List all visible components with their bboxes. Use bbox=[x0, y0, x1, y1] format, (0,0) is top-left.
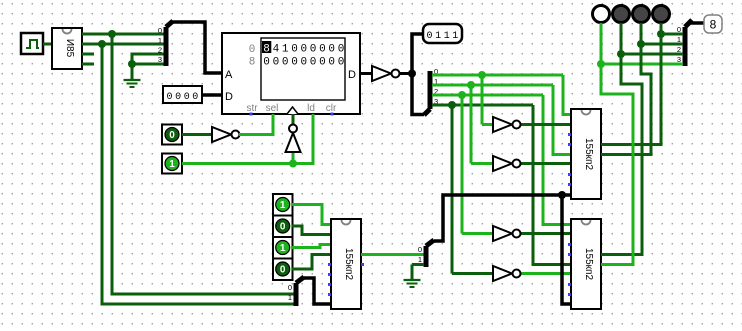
junction bus node bbox=[408, 70, 416, 78]
wire SP2 pin2 row (bit2=1) bbox=[432, 94, 543, 97]
U5 unconnected pin y=264.5 bbox=[328, 263, 331, 266]
svg-text:A: A bbox=[225, 69, 233, 81]
inverter G7 bbox=[452, 266, 571, 281]
svg-text:0: 0 bbox=[328, 57, 335, 69]
U4 unconnected pin y=294.5 bbox=[568, 293, 571, 296]
svg-text:1: 1 bbox=[418, 255, 422, 264]
wire clock out to U1 clk in bbox=[43, 43, 52, 46]
U3 unconnected pin y=144.5 bbox=[568, 143, 571, 146]
RAM clock pin triangle bbox=[287, 107, 298, 114]
svg-text:0: 0 bbox=[319, 44, 326, 56]
svg-text:0: 0 bbox=[300, 44, 307, 56]
svg-text:D: D bbox=[225, 91, 233, 103]
svg-text:8: 8 bbox=[710, 18, 717, 32]
clock generator CLK1 bbox=[21, 33, 43, 54]
svg-text:0: 0 bbox=[418, 245, 422, 254]
bus select to U3/U4 bbox=[434, 195, 571, 241]
wire row0 to SP5 pin0 bbox=[661, 33, 683, 36]
splitter SP4 (counter bits to U5 select) bbox=[288, 277, 304, 306]
wire U1 Q3 stub bbox=[82, 63, 94, 66]
svg-text:1: 1 bbox=[444, 31, 450, 42]
svg-text:sel: sel bbox=[266, 103, 279, 114]
inverter G5 bbox=[471, 156, 571, 171]
junction bit1 branch bbox=[467, 81, 475, 89]
svg-text:0: 0 bbox=[288, 283, 292, 292]
inverter G1 (sel) bbox=[182, 127, 240, 142]
wire bit3 net down to U4 out bbox=[601, 64, 633, 265]
svg-text:155кп2: 155кп2 bbox=[343, 248, 354, 280]
wire SP2 pin3 row (bit3=0) bbox=[432, 104, 533, 107]
junction row2/LED2 bbox=[617, 50, 625, 58]
RAM memory contents display bbox=[249, 41, 345, 69]
svg-text:0: 0 bbox=[426, 31, 432, 42]
svg-text:1: 1 bbox=[158, 36, 162, 45]
svg-text:0: 0 bbox=[310, 44, 317, 56]
constant C1 value 0000 bbox=[163, 86, 202, 103]
bus SP5 to output pin bbox=[691, 21, 704, 23]
inverter G2 (clock, vertical) bbox=[286, 114, 301, 164]
LED L1 bbox=[593, 6, 610, 23]
ground G2 bbox=[404, 265, 421, 288]
wire LED2 stub bbox=[620, 23, 623, 54]
svg-text:0: 0 bbox=[319, 57, 326, 69]
svg-text:1: 1 bbox=[288, 293, 292, 302]
U5 unconnected output pin bbox=[361, 263, 364, 266]
RAM U2 (register file) box bbox=[222, 33, 360, 114]
input pin column P3..P6 (1,0,1,0) bbox=[273, 194, 293, 280]
junction Q0/vertical bbox=[108, 30, 116, 38]
svg-text:8: 8 bbox=[249, 57, 256, 69]
wire P2 to RAM ld bbox=[182, 114, 313, 164]
ground G1 bbox=[124, 64, 141, 87]
wire SP1 pin3 to ground bbox=[132, 63, 164, 66]
svg-text:0: 0 bbox=[166, 92, 172, 103]
wire P6 to U5 pin4 bbox=[292, 255, 331, 270]
svg-text:1: 1 bbox=[280, 243, 286, 254]
wire U1 Q2 stub bbox=[82, 53, 94, 56]
wire bit0 to U3 pin1 bbox=[563, 75, 571, 115]
wire SP2 pin0 row (bit0=1) bbox=[432, 74, 563, 77]
RAM clr pin unconnected bbox=[331, 113, 334, 116]
wire row1 to SP5 pin1 bbox=[641, 43, 683, 46]
wire bit2 to U4 pin1 bbox=[543, 95, 571, 225]
wire U1 Q0 to splitter SP1 pin0 bbox=[82, 33, 164, 36]
junction row0/LED4 bbox=[657, 30, 665, 38]
U5 unconnected pin y=274.5 bbox=[328, 273, 331, 276]
svg-text:0: 0 bbox=[169, 130, 175, 141]
wire SP1 pin2 to ground bbox=[132, 54, 164, 64]
svg-text:0: 0 bbox=[300, 57, 307, 69]
wire Q1 down to SP4 pin1 bbox=[102, 44, 294, 304]
wire bit3 to G7 in bbox=[451, 105, 454, 274]
wire LED3 stub bbox=[640, 23, 643, 44]
svg-text:0: 0 bbox=[249, 44, 256, 56]
svg-text:0: 0 bbox=[310, 57, 317, 69]
svg-text:3: 3 bbox=[158, 55, 162, 64]
svg-text:0: 0 bbox=[338, 57, 345, 69]
U5 unconnected pin y=284.5 bbox=[328, 283, 331, 286]
junction ground node bbox=[128, 60, 136, 68]
LED L3 bbox=[633, 6, 650, 23]
svg-text:0: 0 bbox=[263, 57, 270, 69]
svg-text:2: 2 bbox=[158, 46, 162, 55]
svg-text:ld: ld bbox=[307, 103, 315, 114]
svg-text:155кп2: 155кп2 bbox=[583, 248, 594, 280]
svg-text:0: 0 bbox=[291, 44, 298, 56]
svg-text:0: 0 bbox=[328, 44, 335, 56]
bus select down to U4 bbox=[562, 195, 571, 304]
bus SP4 to U5 select bbox=[303, 278, 331, 304]
splitter SP2 (RAM data fan-out) bbox=[424, 67, 438, 115]
counter U1 И85 bbox=[52, 28, 82, 69]
wire bit1 net down to U3 out bbox=[601, 44, 651, 155]
svg-text:str: str bbox=[246, 103, 258, 114]
splitter SP5 (to hex output) bbox=[677, 20, 692, 66]
bus to probe bbox=[412, 34, 423, 74]
inverter G4 bbox=[482, 117, 571, 132]
wire U1 Q1 to splitter SP1 pin1 bbox=[82, 43, 164, 46]
junction row3/LED1 bbox=[597, 60, 605, 68]
output pin OUT1 value 8 bbox=[704, 15, 722, 33]
wire SP2 pin1 row (bit1=1) bbox=[432, 84, 553, 87]
wire Q0 down to SP4 pin0 bbox=[112, 34, 294, 294]
svg-text:0: 0 bbox=[280, 222, 286, 233]
svg-text:1: 1 bbox=[169, 159, 175, 170]
U3 unconnected pin y=174.5 bbox=[568, 173, 571, 176]
junction row1/LED3 bbox=[637, 40, 645, 48]
U4 unconnected pin y=284.5 bbox=[568, 283, 571, 286]
wire bit2 net down to U4 out bbox=[601, 54, 642, 255]
svg-text:0: 0 bbox=[184, 92, 190, 103]
junction Q1/vertical bbox=[98, 40, 106, 48]
svg-text:0: 0 bbox=[280, 265, 286, 276]
multiplexer U4 155кп2 bbox=[571, 219, 601, 309]
svg-text:0: 0 bbox=[273, 57, 280, 69]
wire bit0 to G4 in bbox=[481, 75, 484, 125]
wire bit0 net down to U3 out bbox=[601, 34, 661, 145]
svg-text:clr: clr bbox=[326, 103, 337, 114]
wire P5 to U5 pin3 bbox=[292, 245, 331, 248]
wire row2 to SP5 pin2 bbox=[621, 53, 683, 56]
svg-text:1: 1 bbox=[452, 31, 458, 42]
inverter G3 (4-bit bus) bbox=[360, 66, 412, 81]
svg-text:1: 1 bbox=[435, 31, 441, 42]
bus C1 to RAM D input bbox=[202, 93, 222, 97]
wire row3 to SP5 pin3 bbox=[601, 63, 683, 66]
svg-text:1: 1 bbox=[282, 44, 289, 56]
inverter G6 bbox=[462, 226, 571, 241]
wire G1 out to RAM sel bbox=[239, 114, 273, 135]
wire bit1 to G5 in bbox=[470, 85, 473, 164]
U4 unconnected pin y=254.5 bbox=[568, 253, 571, 256]
U4 unconnected pin y=244.5 bbox=[568, 243, 571, 246]
splitter SP3 (U5 out + gnd) bbox=[418, 240, 434, 267]
svg-text:1: 1 bbox=[280, 200, 286, 211]
svg-text:D: D bbox=[348, 69, 356, 81]
wire U5 output to SP3 pin0 bbox=[361, 253, 424, 256]
svg-text:0: 0 bbox=[192, 92, 198, 103]
bus down to splitter SP2 bbox=[412, 74, 424, 115]
RAM str pin unconnected bbox=[250, 113, 253, 116]
input pin P1 value 0 bbox=[162, 125, 182, 145]
input pin P2 value 1 bbox=[162, 154, 182, 174]
svg-text:8: 8 bbox=[263, 44, 270, 56]
svg-text:0: 0 bbox=[338, 44, 345, 56]
LED L2 bbox=[613, 6, 630, 23]
wire P3 to U5 pin1 bbox=[292, 205, 331, 225]
wire LED1 stub bbox=[600, 23, 603, 64]
junction bit0 branch bbox=[478, 71, 486, 79]
junction bit3 branch bbox=[448, 101, 456, 109]
svg-text:И85: И85 bbox=[64, 39, 75, 58]
svg-text:155кп2: 155кп2 bbox=[583, 138, 594, 170]
U3 unconnected pin y=184.5 bbox=[568, 183, 571, 186]
multiplexer U5 155кп2 bbox=[331, 219, 361, 309]
junction select bus bbox=[558, 191, 566, 199]
bus SP1 to RAM A input bbox=[172, 22, 222, 73]
wire bit1 to U3 pin5 bbox=[553, 85, 571, 155]
svg-text:0: 0 bbox=[282, 57, 289, 69]
wire bit2 to G6 in bbox=[461, 95, 464, 234]
LED L4 bbox=[653, 6, 670, 23]
wire LED4 stub bbox=[660, 23, 663, 34]
junction at clk inverter input bbox=[289, 160, 297, 168]
junction bit2 branch bbox=[458, 91, 466, 99]
probe PR1 value 0111 bbox=[423, 24, 462, 43]
svg-text:0: 0 bbox=[175, 92, 181, 103]
multiplexer U3 155кп2 bbox=[571, 109, 601, 199]
wire ground to SP3 pin1 bbox=[412, 263, 424, 266]
splitter SP1 (4-bit, to RAM address) bbox=[158, 21, 173, 66]
svg-text:0: 0 bbox=[291, 57, 298, 69]
svg-text:0: 0 bbox=[158, 26, 162, 35]
U3 unconnected pin y=134.5 bbox=[568, 133, 571, 136]
U5 unconnected pin y=294.5 bbox=[328, 293, 331, 296]
wire bit3 to U4 pin5 bbox=[533, 105, 571, 265]
svg-text:4: 4 bbox=[273, 44, 280, 56]
wire P4 to U5 pin2 bbox=[292, 226, 331, 235]
